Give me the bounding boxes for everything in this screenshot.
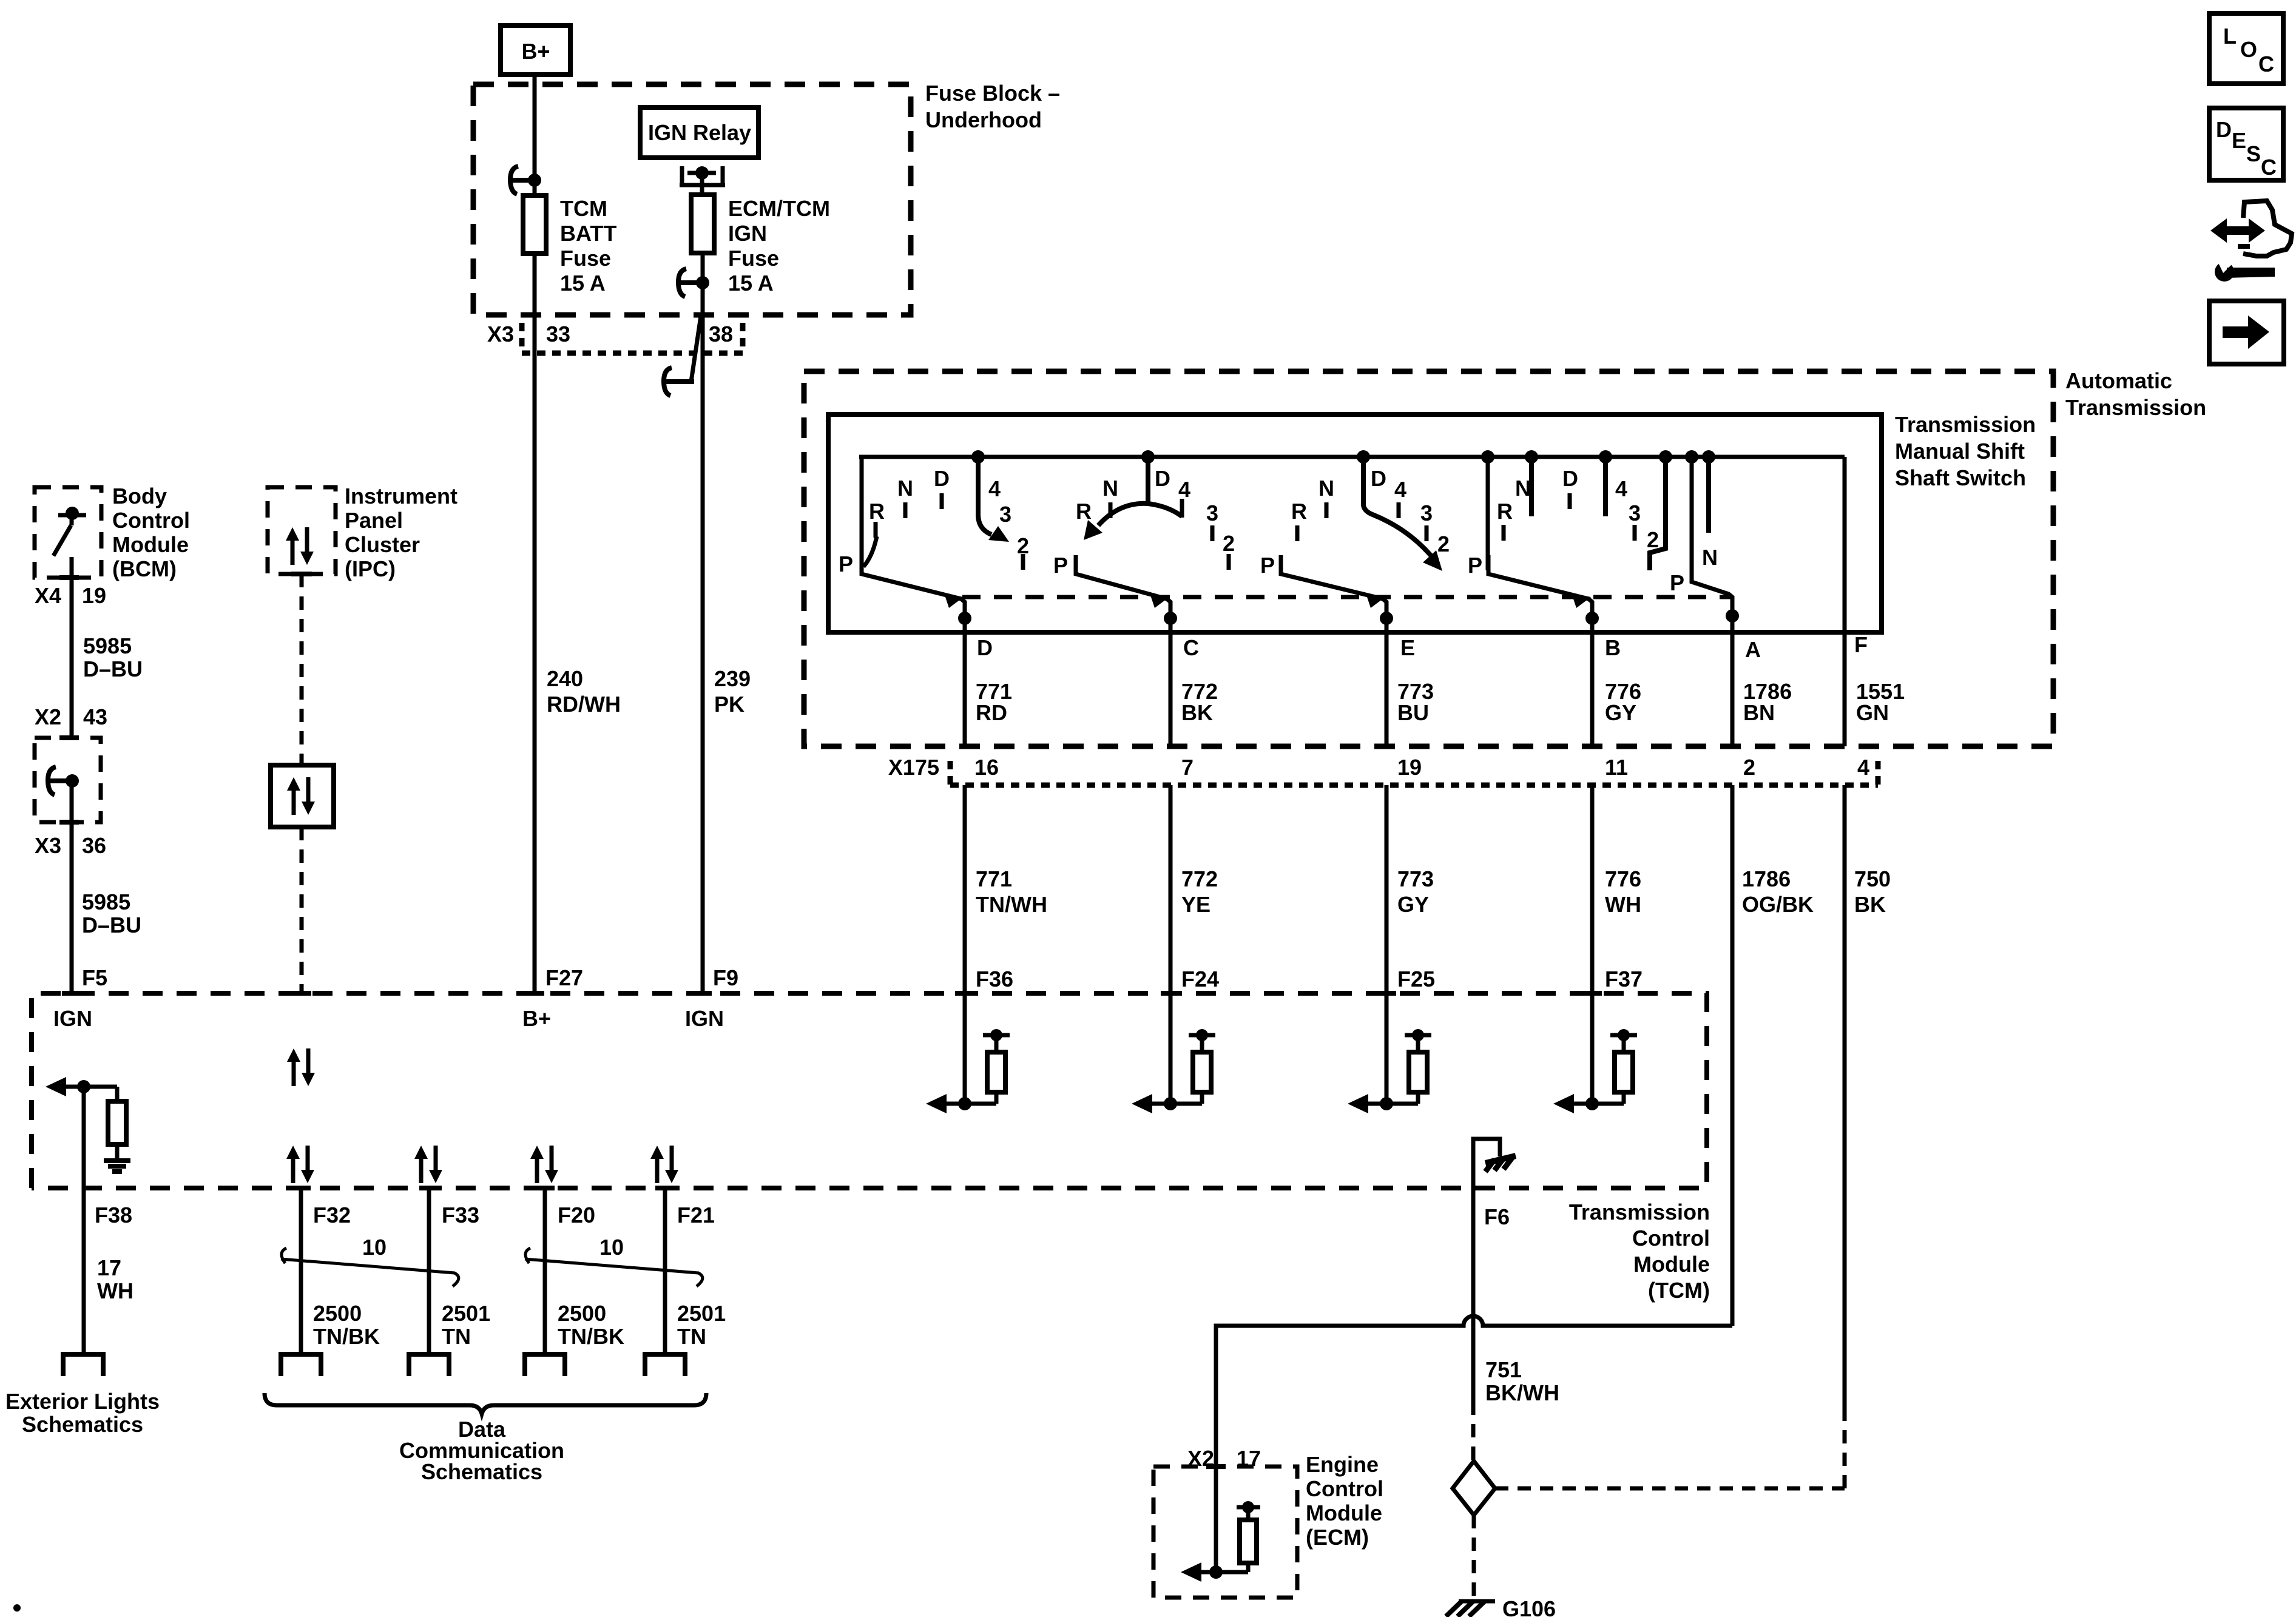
relay contact hook upper [701,253,705,993]
svg-text:F20: F20 [558,1203,595,1227]
svg-text:X4: X4 [35,583,61,608]
svg-text:R: R [1497,499,1513,524]
svg-text:D: D [1371,466,1386,491]
svg-text:5985: 5985 [82,890,130,914]
svg-text:750: 750 [1854,866,1891,891]
svg-text:N: N [1319,476,1334,501]
svg-text:11: 11 [1605,755,1628,780]
svg-text:X2: X2 [35,704,61,729]
ECM dashed box [1153,1467,1297,1598]
inner common dashed line [962,595,1731,599]
svg-text:E: E [1400,635,1415,660]
svg-text:Panel: Panel [345,508,403,533]
svg-text:3: 3 [1420,501,1433,525]
svg-text:15 A: 15 A [560,271,606,295]
svg-text:N: N [1515,476,1531,501]
svg-text:F24: F24 [1181,967,1219,991]
dashed wire diamond to 750 BK [1495,1487,1845,1491]
svg-text:N: N [897,476,913,501]
fuse block underhood dashed box (left) [35,738,101,822]
svg-text:ECM/TCM: ECM/TCM [728,196,830,221]
svg-text:BK: BK [1854,892,1886,917]
svg-text:BK/WH: BK/WH [1485,1380,1559,1405]
icon LOC box [2209,13,2283,84]
svg-text:RD: RD [976,700,1007,725]
connector X3 row (pins 33 38) [519,323,525,351]
internal resistors with arrows (F36 F24 F25 F37) [963,993,967,1104]
svg-text:(BCM): (BCM) [112,556,177,581]
svg-text:Transmission: Transmission [1895,412,2036,437]
svg-text:773: 773 [1397,866,1434,891]
svg-text:Control: Control [1306,1476,1383,1501]
svg-text:F25: F25 [1397,967,1435,991]
svg-text:C: C [2258,52,2274,76]
svg-text:2500: 2500 [558,1301,606,1326]
svg-text:3: 3 [1629,501,1641,525]
IPC serial data arrows [291,538,295,565]
svg-text:751: 751 [1485,1357,1522,1382]
svg-text:PK: PK [714,692,745,717]
svg-text:(ECM): (ECM) [1306,1525,1369,1550]
svg-text:P: P [839,552,853,576]
relay switch blade [691,316,701,382]
svg-text:Manual Shift: Manual Shift [1895,439,2025,464]
svg-text:2500: 2500 [313,1301,362,1326]
module BCM dashed box [35,487,101,578]
wire B+ to TCM BATT fuse [533,75,537,195]
svg-text:Transmission: Transmission [2065,395,2206,420]
svg-text:4: 4 [1615,476,1627,501]
svg-text:N: N [1102,476,1118,501]
wire F38 down [82,1087,86,1354]
svg-text:2501: 2501 [442,1301,490,1326]
svg-text:TN/BK: TN/BK [558,1324,624,1349]
svg-text:3: 3 [1206,501,1218,525]
svg-text:S: S [2246,141,2261,166]
switch common bus [859,455,1845,459]
svg-text:Fuse: Fuse [728,246,779,271]
svg-text:P: P [1468,553,1482,578]
svg-text:WH: WH [97,1278,133,1303]
svg-text:F37: F37 [1605,967,1643,991]
svg-text:43: 43 [83,704,107,729]
svg-text:TN: TN [442,1324,471,1349]
lower hook contact [666,379,694,384]
fuse TCM BATT 15A [523,195,546,254]
svg-text:10: 10 [599,1235,624,1260]
svg-text:BATT: BATT [560,221,616,246]
TCM dashed box [32,993,1707,1188]
icon DESC box [2209,108,2283,180]
svg-text:776: 776 [1605,866,1641,891]
svg-text:Module: Module [112,532,189,557]
svg-text:38: 38 [709,322,733,346]
fuse ECM/TCM IGN 15A [691,195,714,253]
svg-text:240: 240 [547,666,583,691]
svg-text:(TCM): (TCM) [1648,1278,1710,1303]
svg-text:D: D [1155,466,1170,491]
internal IGN arrow + resistor + ground (left) [46,1077,66,1096]
svg-text:D: D [2216,117,2232,142]
page dot [13,1604,21,1612]
wire below fuse [533,254,537,993]
IGN Relay box [640,107,758,158]
svg-text:2: 2 [1743,755,1755,780]
wire 751 BK/WH from F6 down [1471,1188,1476,1402]
svg-text:Body: Body [112,484,167,508]
svg-text:BN: BN [1743,700,1775,725]
svg-text:YE: YE [1181,892,1210,917]
svg-text:X175: X175 [888,755,939,780]
module IPC dashed box [268,487,336,574]
svg-text:772: 772 [1181,866,1218,891]
svg-text:Instrument: Instrument [345,484,458,508]
svg-text:X3: X3 [35,833,61,858]
svg-text:(IPC): (IPC) [345,556,396,581]
svg-text:4: 4 [1857,755,1869,780]
IPC serial arrows inside TCM [292,1059,296,1086]
svg-text:GY: GY [1397,892,1429,917]
svg-text:Module: Module [1633,1252,1710,1277]
svg-text:F33: F33 [442,1203,479,1227]
svg-text:15 A: 15 A [728,271,774,295]
svg-text:Engine: Engine [1306,1452,1379,1477]
switch outputs D C E B A F [963,618,967,746]
svg-text:Schematics: Schematics [22,1412,143,1437]
fuse hook contact inside [66,774,79,788]
icon service tool (arrow + panel + wrench) [2210,218,2265,243]
svg-text:Fuse: Fuse [560,246,611,271]
svg-text:C: C [2261,155,2277,180]
svg-text:BU: BU [1397,700,1429,725]
wire F from bus [1843,457,1847,746]
tick marks at TCM top edge crossings [62,991,81,996]
tick marks at TCM bottom edge [291,1186,311,1190]
svg-text:771: 771 [976,866,1012,891]
svg-text:F9: F9 [713,965,738,990]
BCM output wire [70,557,74,738]
svg-text:IGN: IGN [53,1006,92,1031]
svg-text:R: R [1291,499,1307,524]
wire relay to fuse [700,173,704,195]
relay contact bracket [680,166,684,185]
fuse contact hook [528,174,541,187]
svg-text:R: R [1076,499,1092,524]
svg-text:D–BU: D–BU [83,657,143,681]
svg-text:F36: F36 [976,967,1013,991]
svg-text:D–BU: D–BU [82,913,141,937]
svg-text:Control: Control [1632,1226,1710,1251]
svg-text:D: D [977,635,993,660]
svg-text:Exterior Lights: Exterior Lights [5,1389,160,1414]
svg-text:C: C [1183,635,1199,660]
svg-text:TN: TN [677,1324,706,1349]
svg-text:2: 2 [1437,532,1450,556]
svg-text:P: P [1260,553,1275,578]
svg-text:L: L [2223,24,2237,49]
svg-text:IGN Relay: IGN Relay [648,120,751,145]
svg-text:G106: G106 [1502,1596,1556,1617]
svg-text:D: D [934,466,950,491]
svg-text:E: E [2232,128,2246,153]
wire A elbow with hop over 751 [1216,1316,1732,1467]
svg-text:Module: Module [1306,1501,1382,1525]
dashed wire diamond to G106 [1472,1515,1476,1601]
svg-text:A: A [1745,637,1761,662]
svg-text:4: 4 [1394,477,1406,502]
svg-text:5985: 5985 [83,633,132,658]
svg-text:Control: Control [112,508,190,533]
svg-text:Fuse Block –: Fuse Block – [925,81,1060,106]
svg-text:BK: BK [1181,700,1213,725]
svg-text:1786: 1786 [1742,866,1791,891]
svg-text:17: 17 [97,1255,121,1280]
svg-text:TCM: TCM [560,196,607,221]
svg-text:Schematics: Schematics [421,1459,542,1484]
transmission manual shift shaft switch box [828,414,1882,632]
BCM internal switch [58,513,86,518]
shift switch group 1 [860,457,864,574]
svg-text:19: 19 [1397,755,1422,780]
svg-text:P: P [1053,553,1068,578]
serial data box [271,765,334,827]
wire to X3 36 [70,781,74,993]
svg-text:Cluster: Cluster [345,532,420,557]
ECM internal resistor + arrow [1214,1467,1218,1572]
svg-text:TN/BK: TN/BK [313,1324,380,1349]
svg-text:Automatic: Automatic [2065,368,2172,393]
svg-text:OG/BK: OG/BK [1742,892,1814,917]
svg-text:IGN: IGN [728,221,767,246]
svg-text:Transmission: Transmission [1569,1200,1710,1224]
svg-text:N: N [1702,545,1718,570]
svg-text:X3: X3 [487,322,514,346]
svg-text:IGN: IGN [685,1006,724,1031]
underbrace [265,1393,706,1414]
power symbol B+ box [501,25,570,75]
svg-text:R: R [869,499,885,524]
svg-text:RD/WH: RD/WH [547,692,621,717]
icon forward arrow box [2209,301,2284,364]
svg-text:P: P [1670,570,1684,595]
svg-text:O: O [2240,37,2257,62]
fuse block underhood dashed box (top) [473,84,911,315]
svg-text:239: 239 [714,666,751,691]
splice diamond [1453,1461,1495,1515]
svg-text:B+: B+ [521,39,550,64]
svg-text:F5: F5 [82,965,107,990]
svg-text:4: 4 [988,476,1001,501]
svg-text:TN/WH: TN/WH [976,892,1047,917]
serial data arrows F32 F33 F20 F21 [291,1156,295,1183]
svg-text:10: 10 [362,1235,387,1260]
svg-text:4: 4 [1178,477,1190,502]
chassis ground at F6 inside TCM [1473,1139,1500,1188]
svg-text:19: 19 [82,583,106,608]
svg-text:D: D [1562,466,1578,491]
svg-text:Shaft Switch: Shaft Switch [1895,465,2026,490]
svg-text:F6: F6 [1484,1204,1510,1229]
svg-text:F38: F38 [95,1203,132,1227]
shift switch group 5 [1659,450,1672,464]
connector X175 row [948,761,953,789]
svg-text:36: 36 [82,833,106,858]
svg-text:B: B [1605,635,1621,660]
svg-text:7: 7 [1181,755,1194,780]
svg-text:F32: F32 [313,1203,351,1227]
svg-text:2: 2 [1223,531,1235,556]
dashed wire to TCM [300,827,304,993]
svg-text:WH: WH [1605,892,1641,917]
svg-text:16: 16 [974,755,999,780]
svg-text:F: F [1854,632,1868,657]
svg-text:3: 3 [999,502,1011,527]
svg-text:B+: B+ [522,1006,551,1031]
svg-text:F21: F21 [677,1203,715,1227]
svg-text:2501: 2501 [677,1301,726,1326]
svg-text:GN: GN [1856,700,1889,725]
wires below X175 [963,785,967,993]
IPC data wire (dashed) [291,572,312,576]
svg-text:GY: GY [1605,700,1636,725]
svg-text:33: 33 [546,322,570,346]
automatic transmission dashed box [804,371,2053,746]
svg-text:Underhood: Underhood [925,107,1042,132]
ground G106 [1459,1599,1495,1604]
svg-text:F27: F27 [545,965,583,990]
